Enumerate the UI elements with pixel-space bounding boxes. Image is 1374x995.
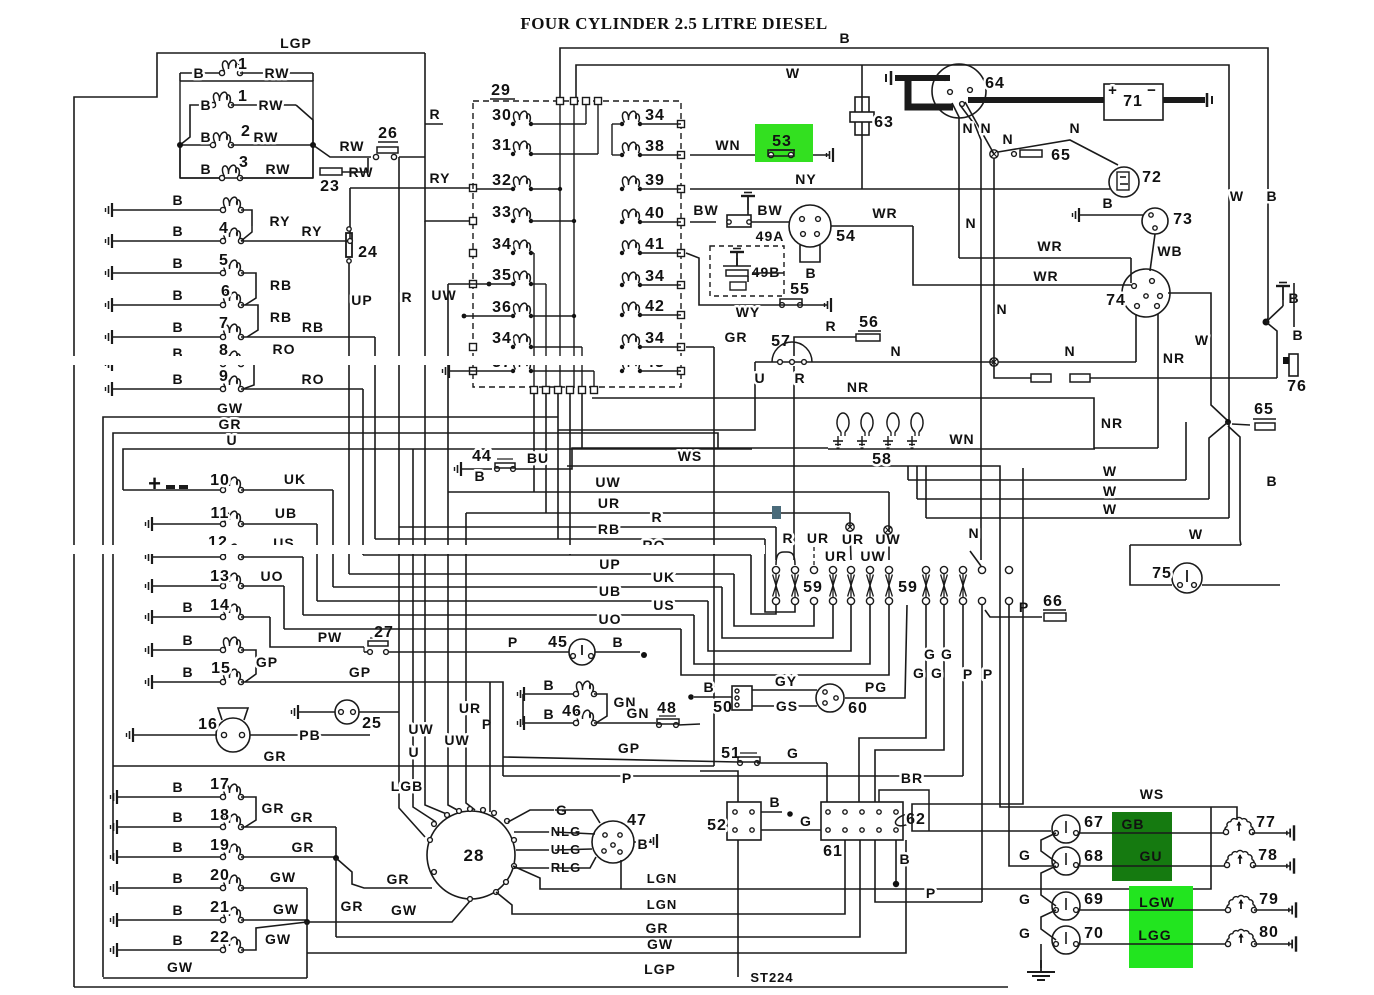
unit 49B <box>710 246 784 296</box>
wire from 25 <box>359 711 399 713</box>
svg-text:B: B <box>172 902 183 918</box>
switch col 870 <box>866 566 873 573</box>
svg-text:GW: GW <box>265 931 291 947</box>
svg-text:38: 38 <box>645 138 665 155</box>
svg-text:GP: GP <box>349 664 371 680</box>
svg-text:ST224: ST224 <box>750 970 793 985</box>
svg-text:2: 2 <box>241 123 251 140</box>
wire G links <box>1041 833 1056 862</box>
svg-text:10: 10 <box>210 472 230 489</box>
svg-text:53: 53 <box>772 133 792 150</box>
wire GR to 28 <box>336 858 432 888</box>
wire P 66 <box>985 610 1042 617</box>
switch 4 upper <box>106 203 113 217</box>
svg-text:B: B <box>612 634 623 650</box>
wire WR from 54 <box>831 225 913 227</box>
svg-text:LGN: LGN <box>647 897 677 912</box>
svg-text:GU: GU <box>1140 848 1163 864</box>
lamp 69 <box>1052 892 1080 920</box>
wire LGW row <box>1080 909 1228 911</box>
N junction 65 <box>990 150 998 158</box>
wire to 65 lower <box>1266 322 1277 378</box>
wire R top corner <box>425 123 443 125</box>
wire GR down <box>335 858 337 937</box>
wire GW bottom left <box>103 977 307 979</box>
fuse 32 left col <box>511 187 515 191</box>
svg-text:GP: GP <box>256 654 278 670</box>
svg-text:GW: GW <box>273 901 299 917</box>
wire G th <box>555 810 600 823</box>
svg-text:3: 3 <box>239 154 249 171</box>
wire N vert <box>993 158 995 362</box>
wire WN 38 <box>690 154 755 156</box>
svg-text:GR: GR <box>725 329 748 345</box>
svg-text:61: 61 <box>823 843 843 860</box>
svg-text:80: 80 <box>1259 924 1279 941</box>
ignition unit 54 <box>789 205 831 247</box>
wire G link 3 <box>1041 910 1056 940</box>
svg-text:BU: BU <box>527 450 549 466</box>
svg-text:B: B <box>172 371 183 387</box>
wire UR bus <box>466 512 850 514</box>
svg-text:UW: UW <box>444 732 469 748</box>
wire U into 28 <box>413 449 436 822</box>
svg-text:N: N <box>996 301 1007 317</box>
svg-text:UK: UK <box>284 471 306 487</box>
wire GN 48 <box>594 722 656 724</box>
svg-text:16: 16 <box>198 716 218 733</box>
svg-text:PG: PG <box>865 679 887 695</box>
svg-text:B: B <box>172 319 183 335</box>
svg-text:G: G <box>913 665 925 681</box>
svg-text:26: 26 <box>378 125 398 142</box>
inner verticals fusebox <box>559 105 561 386</box>
switch 9 <box>106 382 113 396</box>
svg-text:72: 72 <box>1142 169 1162 186</box>
wire B link 46 <box>522 694 524 725</box>
highlight 53 <box>755 124 813 162</box>
svg-text:44: 44 <box>472 448 492 465</box>
svg-text:UP: UP <box>599 556 620 572</box>
svg-text:RW: RW <box>258 97 283 113</box>
wire RO bus <box>363 554 751 556</box>
svg-text:59: 59 <box>803 579 823 596</box>
wire P1 <box>962 605 964 776</box>
wire PB <box>250 734 370 736</box>
switch 20 <box>111 881 118 895</box>
switch col UR1 <box>810 566 817 573</box>
svg-text:BR: BR <box>901 770 923 786</box>
wire 44 BU <box>455 462 462 476</box>
svg-text:RO: RO <box>302 371 325 387</box>
svg-text:U: U <box>754 370 765 386</box>
svg-text:B: B <box>172 255 183 271</box>
svg-text:UW: UW <box>408 721 433 737</box>
svg-text:62: 62 <box>906 811 926 828</box>
svg-text:RW: RW <box>253 129 278 145</box>
switch 14 <box>146 610 153 624</box>
bright green highlight <box>1129 886 1193 968</box>
svg-text:GW: GW <box>167 959 193 975</box>
svg-text:B: B <box>1266 473 1277 489</box>
wire LGG row <box>1080 943 1228 945</box>
svg-text:NY: NY <box>795 171 816 187</box>
wire B 73 <box>1073 208 1080 222</box>
svg-text:34: 34 <box>645 330 665 347</box>
svg-text:34: 34 <box>645 268 665 285</box>
thick cable 64 to 71 <box>968 97 1104 103</box>
wire R vertical from 26 <box>399 156 425 158</box>
wire WS bus <box>567 466 1237 820</box>
wire G <box>757 762 827 764</box>
wire UO <box>283 586 285 629</box>
wire P2 <box>981 605 983 902</box>
svg-text:RY: RY <box>270 213 291 229</box>
switch 1a <box>179 73 181 81</box>
wire W top rail <box>576 65 1229 422</box>
svg-text:NR: NR <box>1101 415 1123 431</box>
wire B lower right <box>1228 426 1240 540</box>
wire B 62 <box>895 840 897 882</box>
svg-text:N: N <box>965 215 976 231</box>
fuse 34 right col <box>620 283 624 287</box>
fuse 43 right col <box>620 369 624 373</box>
svg-text:21: 21 <box>210 899 230 916</box>
starter switch 64 <box>932 64 986 118</box>
wire GS <box>752 705 817 707</box>
svg-text:RB: RB <box>598 521 620 537</box>
relay 62 body <box>879 790 929 831</box>
svg-text:15: 15 <box>211 660 231 677</box>
gauge 78 <box>1226 850 1254 865</box>
flasher 60 <box>816 684 844 712</box>
svg-text:GS: GS <box>776 698 798 714</box>
fuse 35 left col <box>511 282 515 286</box>
svg-text:19: 19 <box>210 837 230 854</box>
wire UP vertical <box>348 263 350 574</box>
svg-text:63: 63 <box>874 114 894 131</box>
wire ULG <box>516 849 555 851</box>
connector 61 <box>821 802 903 840</box>
svg-text:WB: WB <box>1157 243 1182 259</box>
switch 7 <box>106 330 113 344</box>
svg-text:NR: NR <box>1163 350 1185 366</box>
wire LGB <box>399 527 425 837</box>
svg-text:75: 75 <box>1152 565 1172 582</box>
wire R to 56 <box>794 337 856 356</box>
gauge 80 <box>1227 929 1255 944</box>
svg-text:GR: GR <box>646 920 669 936</box>
svg-text:WS: WS <box>678 448 703 464</box>
wire UW from fuse 35 <box>487 282 492 287</box>
svg-text:B: B <box>637 836 648 852</box>
svg-text:B: B <box>172 870 183 886</box>
svg-text:B: B <box>172 839 183 855</box>
wire UO bus <box>284 628 681 630</box>
svg-text:UR: UR <box>598 495 620 511</box>
svg-text:G: G <box>1019 847 1031 863</box>
lamp 68 <box>1052 847 1080 875</box>
fuse 34 left col <box>511 251 515 255</box>
svg-text:35: 35 <box>492 267 512 284</box>
svg-text:B: B <box>805 265 816 281</box>
fuse 38 right col <box>620 153 624 157</box>
wire GW 20 <box>306 888 308 922</box>
svg-text:24: 24 <box>358 244 378 261</box>
battery lead right <box>1163 97 1205 103</box>
switch 8 <box>106 357 113 371</box>
svg-text:B: B <box>1292 327 1303 343</box>
lamp 75 <box>1130 544 1241 546</box>
svg-text:P: P <box>508 634 518 650</box>
wire GU row <box>1080 865 1227 867</box>
lamp 25 <box>292 705 299 719</box>
svg-text:B: B <box>182 632 193 648</box>
svg-text:33: 33 <box>492 204 512 221</box>
B junction right <box>1267 318 1268 321</box>
svg-text:RY: RY <box>430 170 451 186</box>
switch 6 <box>106 298 113 312</box>
svg-text:G: G <box>941 646 953 662</box>
svg-text:U: U <box>226 432 237 448</box>
wire UW bus <box>448 491 889 493</box>
svg-text:UB: UB <box>599 583 621 599</box>
horn 16 <box>127 728 134 742</box>
svg-text:P: P <box>926 885 936 901</box>
svg-text:9: 9 <box>219 368 229 385</box>
wire P horiz <box>503 775 963 777</box>
squares bottom edge <box>531 387 538 394</box>
svg-text:R: R <box>782 530 793 546</box>
switch 11 <box>146 517 153 531</box>
svg-text:76: 76 <box>1287 378 1307 395</box>
lever switch N <box>978 566 985 573</box>
svg-text:54: 54 <box>836 228 856 245</box>
svg-text:31: 31 <box>492 137 512 154</box>
wire W from 74 <box>1168 293 1228 421</box>
fuse 40 right col <box>620 220 624 224</box>
switch 5 <box>106 266 113 280</box>
fuse 41 right col <box>620 251 624 255</box>
gauge 77 <box>1225 817 1253 832</box>
svg-text:B: B <box>1266 188 1277 204</box>
svg-text:49B: 49B <box>752 264 781 280</box>
dist unit 74 <box>1122 269 1170 317</box>
svg-text:RW: RW <box>265 161 290 177</box>
svg-text:65: 65 <box>1051 147 1071 164</box>
svg-text:60: 60 <box>848 700 868 717</box>
switch col 833 <box>829 566 836 573</box>
wire into 68 <box>1009 605 1052 866</box>
switch 15a <box>146 643 153 657</box>
svg-text:RO: RO <box>273 341 296 357</box>
wire RB bus <box>375 538 765 540</box>
wire RY bus <box>349 188 351 241</box>
wire RB vertical <box>374 337 376 539</box>
switch col G2 <box>940 566 947 573</box>
wire GR bus bottom <box>336 840 860 937</box>
svg-text:−: − <box>1147 82 1157 99</box>
svg-text:W: W <box>1230 188 1244 204</box>
wires below fusebox <box>533 394 535 492</box>
switch 19 <box>111 850 118 864</box>
svg-text:N: N <box>1002 131 1013 147</box>
svg-text:B: B <box>200 97 211 113</box>
wire GW bus <box>103 417 558 977</box>
junction circles above bank <box>884 526 892 534</box>
svg-text:RW: RW <box>339 138 364 154</box>
svg-text:R: R <box>401 289 412 305</box>
wire B 52 <box>761 811 782 813</box>
svg-text:B: B <box>474 468 485 484</box>
wire LGN2 <box>496 840 845 914</box>
svg-text:B: B <box>172 223 183 239</box>
wire LGN1 <box>513 807 1211 889</box>
svg-text:+: + <box>1108 82 1118 99</box>
svg-text:FOUR CYLINDER 2.5 LITRE DIESEL: FOUR CYLINDER 2.5 LITRE DIESEL <box>520 14 827 33</box>
svg-text:GW: GW <box>391 902 417 918</box>
svg-text:WR: WR <box>1033 268 1058 284</box>
wire 52 top <box>700 771 738 802</box>
svg-text:PW: PW <box>318 629 343 645</box>
wire UK <box>332 490 334 587</box>
wire 47 down <box>620 860 622 889</box>
switch pair 59 left <box>772 566 779 573</box>
wire P to 45 <box>388 651 569 653</box>
svg-text:GW: GW <box>647 936 673 952</box>
svg-text:P: P <box>622 770 632 786</box>
svg-text:13: 13 <box>210 568 230 585</box>
svg-text:36: 36 <box>492 299 512 316</box>
wire US bus <box>303 614 694 616</box>
svg-text:23: 23 <box>320 178 340 195</box>
svg-text:W: W <box>786 65 800 81</box>
svg-text:64: 64 <box>985 75 1005 92</box>
svg-text:69: 69 <box>1084 891 1104 908</box>
svg-text:W: W <box>1103 501 1117 517</box>
wire N from 57 <box>812 361 994 363</box>
svg-text:PB: PB <box>299 727 320 743</box>
svg-text:UK: UK <box>653 569 675 585</box>
svg-text:52: 52 <box>707 817 727 834</box>
starter relay 47 <box>592 821 634 863</box>
svg-text:30: 30 <box>492 107 512 124</box>
svg-text:UR: UR <box>459 700 481 716</box>
svg-text:RB: RB <box>270 277 292 293</box>
svg-text:R: R <box>794 370 805 386</box>
switch 49A <box>690 221 716 223</box>
fuse 36 left col <box>511 314 515 318</box>
svg-text:W: W <box>1103 483 1117 499</box>
svg-text:G: G <box>787 745 799 761</box>
wire R bus <box>399 526 776 528</box>
svg-text:34: 34 <box>492 236 512 253</box>
svg-text:LGG: LGG <box>1138 927 1171 943</box>
svg-text:41: 41 <box>645 236 665 253</box>
svg-text:40: 40 <box>645 205 665 222</box>
svg-text:US: US <box>653 597 674 613</box>
wire UK bus <box>333 586 722 588</box>
svg-text:G: G <box>1019 891 1031 907</box>
svg-text:58: 58 <box>872 451 892 468</box>
svg-text:57: 57 <box>771 333 791 350</box>
svg-text:77: 77 <box>1256 814 1276 831</box>
svg-text:59: 59 <box>898 579 918 596</box>
fuse 23 <box>320 168 342 175</box>
svg-text:49A: 49A <box>756 228 785 244</box>
wire GR mid <box>113 765 714 767</box>
svg-text:GR: GR <box>219 416 242 432</box>
wire W drops <box>1185 422 1187 480</box>
svg-text:6: 6 <box>221 283 231 300</box>
wire RW to fuse 26 <box>313 145 371 157</box>
fuse 26 <box>377 147 398 153</box>
switch 3 <box>179 145 181 178</box>
switch 17 <box>111 790 118 804</box>
svg-text:G: G <box>800 813 812 829</box>
wire PG 60 <box>845 605 907 698</box>
svg-text:UP: UP <box>351 292 372 308</box>
battery 71 <box>1104 84 1163 120</box>
svg-text:WR: WR <box>872 205 897 221</box>
svg-text:B: B <box>182 664 193 680</box>
switch 1b <box>180 105 213 145</box>
svg-text:W: W <box>1195 332 1209 348</box>
svg-text:34: 34 <box>645 107 665 124</box>
switch col G1 <box>922 566 929 573</box>
svg-text:B: B <box>200 129 211 145</box>
svg-text:RY: RY <box>302 223 323 239</box>
fuse 63 <box>855 97 869 135</box>
svg-text:WS: WS <box>1140 786 1165 802</box>
wire NY 39 <box>690 188 1110 190</box>
wire UB bus <box>317 600 708 602</box>
svg-text:68: 68 <box>1084 848 1104 865</box>
wire GR 18 <box>335 827 337 858</box>
svg-text:BW: BW <box>757 202 782 218</box>
svg-text:71: 71 <box>1123 93 1143 110</box>
lamp 73 <box>1142 208 1168 234</box>
svg-text:73: 73 <box>1173 211 1193 228</box>
switch col UW <box>885 566 892 573</box>
wire RLG <box>514 867 555 869</box>
fuse 34 right col <box>620 345 624 349</box>
svg-text:29: 29 <box>491 82 511 99</box>
switch 21 <box>111 913 118 927</box>
fuse 24 <box>346 233 352 257</box>
svg-text:B: B <box>703 679 714 695</box>
wire U from 57 <box>755 361 772 363</box>
svg-text:UO: UO <box>261 568 284 584</box>
svg-text:5: 5 <box>219 252 229 269</box>
scan band 2 <box>0 545 765 554</box>
svg-text:GR: GR <box>264 748 287 764</box>
svg-text:RW: RW <box>264 65 289 81</box>
fusebox 29 outline <box>473 101 681 387</box>
svg-text:28: 28 <box>464 846 485 865</box>
svg-text:UW: UW <box>595 474 620 490</box>
svg-text:B: B <box>543 706 554 722</box>
svg-text:WR: WR <box>1037 238 1062 254</box>
wire B top rail <box>560 48 1268 318</box>
svg-text:BW: BW <box>693 202 718 218</box>
wire U bus <box>123 449 752 490</box>
fuse 39 right col <box>620 187 624 191</box>
ignition switch 28 <box>427 811 515 899</box>
wire G2 <box>875 605 944 802</box>
wire NR <box>592 398 1158 448</box>
wire N to 72 <box>998 140 1118 165</box>
